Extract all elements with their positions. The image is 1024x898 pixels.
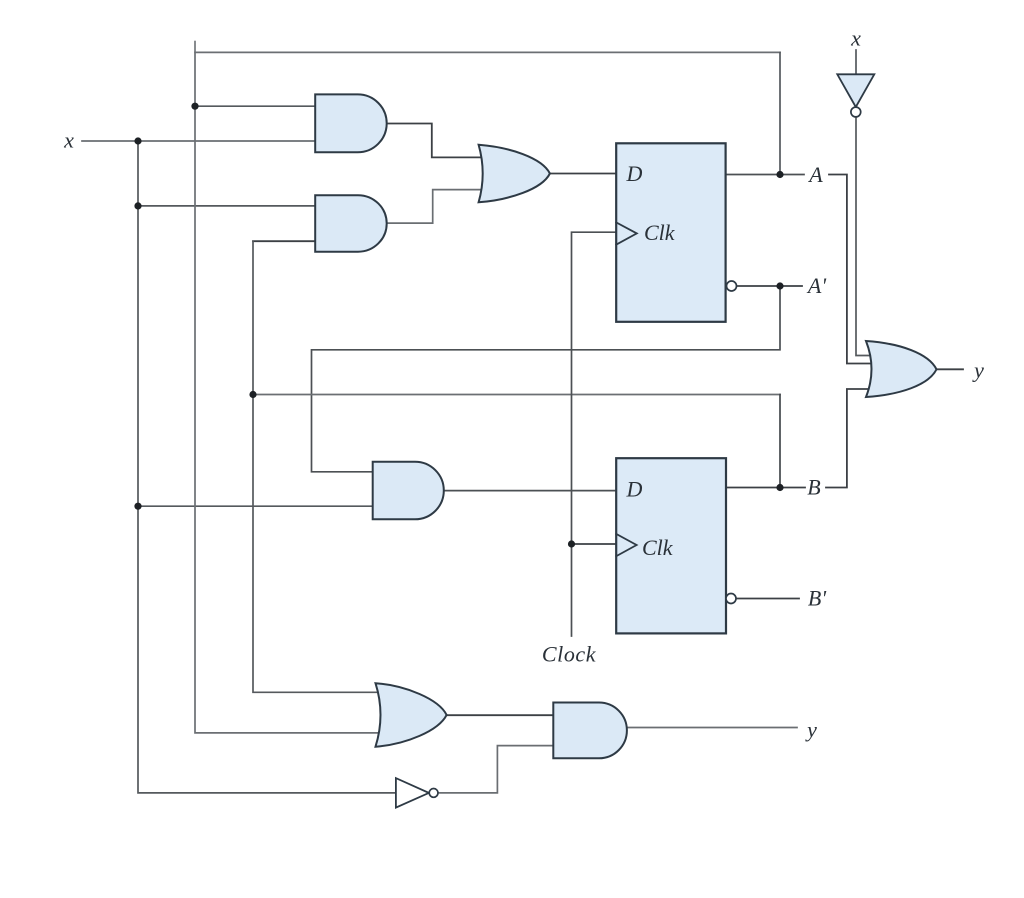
- wire: A rail to AND1 upper input: [195, 105, 315, 107]
- or-gate O2: [376, 683, 447, 747]
- wire: x input horizontal to AND1 lower input: [82, 140, 315, 142]
- or-gate O1: [479, 145, 550, 203]
- wire: clock line from flip-flop A Clk down to Clock stub: [572, 232, 617, 636]
- flip-flop B complement bubble: [726, 594, 736, 604]
- wire: bottom inverter output up to AND4 lower input: [438, 746, 553, 793]
- junction dot B rail to feedback line: [249, 391, 256, 398]
- svg-text:y: y: [972, 358, 984, 383]
- wire: top rail down to A node: [779, 52, 781, 174]
- wire: flip-flop B output to node B: [726, 487, 805, 489]
- wire: OR1 output to D input of flip-flop A: [550, 173, 616, 175]
- wire: B feedback drop to node B: [779, 395, 781, 488]
- wire: AND4 output to y: [627, 727, 797, 729]
- junction dot node A: [776, 171, 783, 178]
- bottom inverter: [396, 778, 429, 808]
- wire: x to AND2 upper input: [138, 205, 315, 207]
- junction dot x to AND2: [134, 202, 141, 209]
- svg-text:A': A': [806, 273, 826, 298]
- svg-text:x: x: [63, 128, 74, 153]
- svg-text:D: D: [626, 161, 643, 186]
- flip-flop A Clk edge triangle: [616, 222, 637, 244]
- wire: AND1 output to OR1 upper input: [387, 124, 487, 158]
- svg-text:A: A: [807, 162, 823, 187]
- and-gate A4: [553, 703, 627, 759]
- wire: B rail to AND2 lower input: [253, 240, 315, 242]
- wire: flip-flop B complement output B': [736, 598, 799, 600]
- junction dot clock to flip-flop B: [568, 540, 575, 547]
- svg-text:Clock: Clock: [542, 642, 597, 667]
- flip-flop A complement bubble: [727, 281, 737, 291]
- wire: flip-flop A complement output A': [737, 285, 802, 287]
- wire: B feedback line: [253, 394, 780, 396]
- and-gate A1: [315, 94, 387, 152]
- flip-flop B Clk edge triangle: [616, 534, 636, 556]
- top inverter (x complement): [837, 74, 874, 107]
- svg-text:Clk: Clk: [644, 220, 676, 245]
- junction dot node A': [776, 282, 783, 289]
- wire: x input to top inverter: [855, 50, 857, 74]
- svg-text:y: y: [805, 717, 817, 742]
- wire: A' feedback down-left to AND3 upper input: [312, 286, 781, 472]
- top inverter bubble: [851, 107, 861, 117]
- or-gate O3 (output y right): [866, 341, 937, 397]
- wire: AND3 output to D input of flip-flop B: [444, 490, 616, 492]
- and-gate A3: [373, 462, 444, 520]
- wire: x to AND3 lower input: [138, 505, 374, 507]
- wire: x vertical rail down to bottom inverter input: [138, 141, 396, 793]
- and-gate A2: [315, 195, 387, 252]
- D flip-flop B body: [616, 458, 726, 633]
- junction dot x input tee: [134, 137, 141, 144]
- wire: OR3 output to y: [937, 368, 964, 370]
- wire: node A to right OR3 middle input: [829, 175, 877, 364]
- svg-text:D: D: [626, 477, 643, 502]
- junction dot A rail to AND1: [191, 103, 198, 110]
- wire: top rail corner overshoot tick: [194, 42, 196, 53]
- D flip-flop A body: [616, 143, 725, 321]
- wire: flip-flop A output to node A: [726, 174, 804, 176]
- wire: top inverter output down to right OR3 upper input: [856, 117, 877, 356]
- junction dot node B: [776, 484, 783, 491]
- wire: clock branch to flip-flop B Clk: [572, 543, 617, 545]
- bottom inverter bubble: [429, 789, 438, 798]
- wire: OR2 output to AND4 upper input: [447, 714, 554, 716]
- junction dot x to AND3: [134, 503, 141, 510]
- svg-text:B': B': [808, 586, 826, 611]
- wire: node B to right OR3 lower input: [826, 389, 877, 488]
- svg-text:B: B: [807, 475, 820, 500]
- svg-text:x: x: [850, 26, 861, 51]
- svg-text:Clk: Clk: [642, 535, 674, 560]
- wire: B vertical rail down to OR2 upper input: [253, 241, 379, 692]
- wire: A feedback top rail down to OR2 lower input: [195, 52, 780, 733]
- wire: AND2 output to OR1 lower input: [387, 190, 487, 224]
